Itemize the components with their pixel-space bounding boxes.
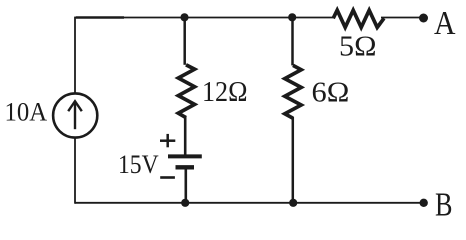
svg-text:5Ω: 5Ω [339,32,377,63]
svg-text:A: A [434,5,456,42]
svg-text:12Ω: 12Ω [202,77,248,108]
svg-text:15V: 15V [118,149,159,179]
svg-text:10A: 10A [5,97,48,127]
svg-text:B: B [435,187,453,220]
svg-text:6Ω: 6Ω [312,77,350,108]
